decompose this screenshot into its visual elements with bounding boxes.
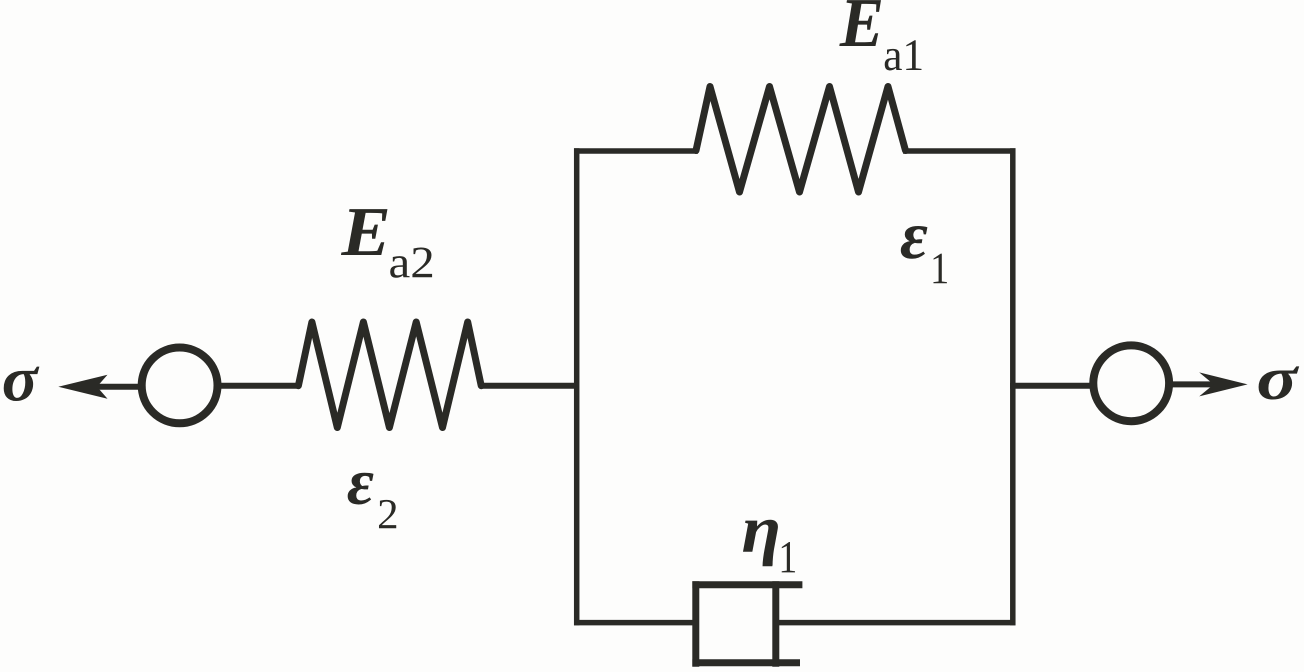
wire spring Ea1 to top-right corner <box>903 148 1016 154</box>
dashpot eta1 <box>692 581 802 667</box>
spring Ea2 <box>298 322 481 428</box>
right vertical wire of parallel box <box>1010 148 1016 625</box>
label eta1 <box>743 520 795 573</box>
wire spring Ea2 to left node <box>481 383 579 389</box>
terminal circle left <box>142 348 218 424</box>
left vertical wire of parallel box <box>574 148 580 625</box>
wire dashpot rod to bottom-right corner <box>776 620 1016 626</box>
label epsilon1 <box>901 226 947 283</box>
label epsilon2 <box>348 473 397 529</box>
label sigma right <box>1259 366 1300 399</box>
label sigma left <box>4 367 40 401</box>
terminal circle right <box>1093 345 1169 421</box>
label Ea2 <box>341 209 432 278</box>
wire circle to spring Ea2 <box>218 383 300 389</box>
wire bottom-left to dashpot <box>574 620 698 626</box>
label Ea1 <box>839 0 921 70</box>
force arrow right <box>1170 372 1248 396</box>
spring Ea1 <box>696 87 906 193</box>
force arrow left <box>58 375 141 399</box>
wire top-left to spring Ea1 <box>574 148 698 154</box>
wire right node to terminal circle right <box>1010 383 1092 389</box>
